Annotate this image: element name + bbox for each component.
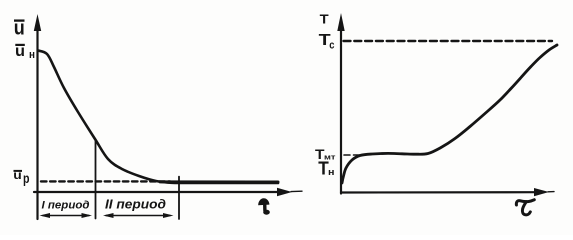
svg-text:н: н	[29, 49, 35, 61]
svg-text:I период: I период	[42, 199, 90, 211]
svg-text:II период: II период	[105, 198, 166, 212]
svg-text:р: р	[23, 171, 30, 186]
svg-text:c: c	[329, 40, 334, 52]
svg-text:T: T	[320, 11, 329, 26]
svg-text:н: н	[328, 167, 335, 178]
